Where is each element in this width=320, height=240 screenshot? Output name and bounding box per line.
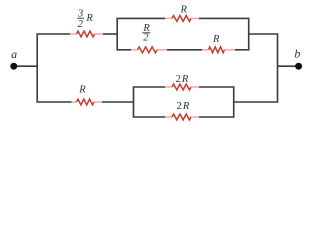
svg-text:R: R [78, 85, 86, 96]
wire left vertical [36, 34, 38, 102]
wire box1 to right vertical [249, 33, 279, 35]
wire box2 bottom edge right of R7 [199, 116, 235, 118]
wire box1 right edge [248, 18, 250, 49]
wire bottom branch left of R5 [36, 101, 71, 103]
wire box1 left edge [116, 18, 118, 49]
wire right vertical [277, 34, 279, 102]
node b terminal dot [295, 63, 302, 70]
svg-text:2R: 2R [177, 101, 190, 112]
svg-text:2: 2 [143, 32, 149, 43]
resistor R1 (3/2 R) [70, 31, 103, 37]
wire box1 top edge left of R2 [116, 17, 165, 19]
wire top branch right of R1 [103, 33, 117, 35]
node a terminal dot [10, 63, 17, 70]
label 3/2 R for R1 [77, 8, 93, 30]
svg-text:3: 3 [77, 8, 83, 19]
svg-text:R: R [85, 13, 93, 24]
svg-text:R: R [179, 5, 187, 16]
resistor R4 (R, box1 bottom right) [202, 47, 235, 53]
wire box1 bottom edge between R3 and R4 [167, 49, 202, 51]
svg-text:R: R [212, 34, 220, 45]
svg-text:2: 2 [78, 19, 84, 30]
svg-text:2R: 2R [176, 74, 189, 85]
svg-text:b: b [294, 47, 300, 61]
wire box1 top edge right of R2 [199, 17, 250, 19]
svg-text:a: a [11, 47, 17, 61]
label R/2 for R3 [142, 23, 150, 44]
resistor R5 (R, bottom branch) [72, 99, 103, 105]
wire top branch left of R1 [36, 33, 70, 35]
wire box2 right edge [233, 87, 235, 117]
wire box2 top edge right of R6 [199, 86, 235, 88]
wire box2 top edge left of R6 [133, 86, 165, 88]
wire a to left junction [14, 65, 38, 67]
resistor R7 (2R, box2 bottom) [165, 114, 199, 120]
wire box2 to right vertical [234, 101, 279, 103]
wire box1 bottom edge right of R4 [235, 49, 250, 51]
resistor R6 (2R, box2 top) [165, 84, 199, 90]
resistor R2 (R, box1 top) [165, 16, 199, 22]
wire box1 bottom edge left of R3 [116, 49, 131, 51]
resistor R3 (R/2, box1 bottom left) [131, 47, 167, 53]
wire box2 left edge [133, 87, 135, 117]
wire right vertical to b [278, 65, 299, 67]
wire box2 bottom edge left of R7 [133, 116, 165, 118]
wire bottom branch right of R5 [102, 101, 134, 103]
